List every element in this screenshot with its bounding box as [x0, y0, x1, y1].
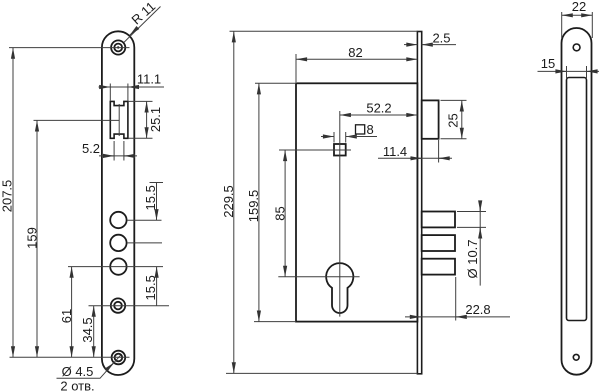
svg-text:11.4: 11.4 [383, 144, 407, 159]
dimension 159 [36, 120, 38, 357]
svg-text:15.5: 15.5 [143, 185, 158, 210]
leader hole diameter [57, 355, 121, 378]
square hole centerline [279, 149, 351, 151]
label diameter 4.5 [62, 364, 94, 379]
svg-text:Ø 4.5: Ø 4.5 [62, 364, 94, 379]
round hole 1 [110, 212, 126, 228]
dimension 229.5 [233, 31, 235, 373]
deadbolt 1 [422, 212, 455, 228]
svg-text:2 отв.: 2 отв. [60, 379, 94, 392]
top screw hole [111, 40, 125, 54]
vertical centerline [339, 111, 341, 317]
svg-text:8: 8 [367, 122, 374, 137]
extension line bottom screw hole [10, 356, 130, 358]
strike plate bottom hole [573, 354, 579, 360]
dimension 82 [296, 54, 417, 82]
svg-text:61: 61 [59, 309, 74, 323]
round hole 2 [110, 235, 126, 251]
dimension 11.1 [99, 84, 165, 101]
label square 8 [356, 122, 374, 137]
extension line body top [255, 82, 296, 84]
extension line hole3 [68, 266, 163, 268]
label 5.2 [82, 141, 100, 156]
extension line backplate bottom [226, 372, 417, 374]
svg-text:159: 159 [25, 227, 40, 249]
dimension 61 [71, 267, 73, 358]
label 85 [273, 206, 288, 220]
label 25 [446, 113, 461, 127]
label 11.4 [383, 144, 407, 159]
label R11 [128, 0, 158, 28]
svg-text:2.5: 2.5 [432, 30, 450, 45]
faceplate outline [102, 31, 134, 375]
label 11.1 [137, 72, 161, 87]
extension line hole1 [127, 219, 162, 221]
dimension diameter 10.7 [457, 201, 486, 286]
strike plate slot [567, 78, 587, 321]
svg-text:15: 15 [541, 56, 555, 71]
extension line cutout center [34, 119, 120, 121]
svg-text:159.5: 159.5 [246, 190, 261, 223]
leader R11 [124, 7, 161, 43]
label 34.5 [80, 317, 95, 342]
dimension 159.5 [258, 83, 260, 321]
label 15.5 bottom [143, 275, 158, 300]
cylinder hole [326, 263, 353, 313]
dimension 22 [562, 12, 593, 38]
label 82 [348, 45, 362, 60]
dimension 85 [284, 150, 286, 277]
svg-text:15.5: 15.5 [143, 275, 158, 300]
label 15 [541, 56, 555, 71]
extension line backplate top [230, 30, 418, 32]
latch bolt [422, 100, 439, 138]
latch cutout [110, 101, 128, 138]
svg-text:85: 85 [273, 206, 288, 220]
svg-text:22.8: 22.8 [465, 302, 490, 317]
strike plate top hole [573, 44, 580, 51]
svg-text:22: 22 [572, 0, 586, 14]
svg-text:82: 82 [348, 45, 362, 60]
deadbolt 2 [422, 235, 455, 251]
dimension 11.4 [378, 140, 452, 163]
svg-text:34.5: 34.5 [80, 317, 95, 342]
dimension 15.5 bottom [156, 267, 158, 306]
label 159 [25, 227, 40, 249]
latch cutout centerline [118, 104, 120, 136]
svg-text:207.5: 207.5 [0, 180, 15, 213]
bottom screw hole [112, 351, 126, 365]
svg-text:5.2: 5.2 [82, 141, 100, 156]
label 159.5 [246, 190, 261, 223]
dimension 25 [441, 100, 467, 138]
svg-text:52.2: 52.2 [366, 101, 391, 116]
svg-text:11.1: 11.1 [137, 72, 161, 87]
label 2 holes [60, 379, 94, 392]
extension line hole2 [127, 242, 162, 244]
svg-text:25.1: 25.1 [148, 107, 163, 132]
svg-text:Ø 10.7: Ø 10.7 [465, 239, 480, 278]
middle screw hole [111, 298, 125, 312]
deadbolt 3 [422, 259, 455, 275]
dimension 52.2 [340, 114, 418, 116]
dimension 15 [538, 66, 600, 79]
svg-text:229.5: 229.5 [221, 185, 236, 218]
round hole 3 [110, 258, 126, 274]
dimension 25.1 [128, 101, 153, 138]
dimension 34.5 [93, 306, 95, 358]
cylinder centerline [278, 276, 359, 278]
dimension 22.8 [405, 277, 510, 321]
label 207.5 [0, 180, 15, 213]
dimension 2.5 [404, 44, 456, 46]
dimension 207.5 [12, 48, 14, 358]
backplate [417, 32, 421, 374]
label 61 [59, 309, 74, 323]
label diameter 10.7 [465, 239, 480, 278]
label 25.1 [148, 107, 163, 132]
square spindle hole [334, 144, 346, 156]
dimension 5.2 [99, 141, 137, 161]
extension line middle screw hole [89, 305, 170, 307]
label 15.5 top [143, 185, 158, 210]
label 22.8 [465, 302, 490, 317]
label 229.5 [221, 185, 236, 218]
extension line top hole [9, 47, 130, 49]
label 22 [572, 0, 586, 14]
svg-text:25: 25 [446, 113, 461, 127]
lock body [296, 83, 417, 321]
label 2.5 [432, 30, 450, 45]
extension line body bottom [254, 321, 296, 323]
dimension square 8 [321, 132, 377, 143]
label 52.2 [366, 101, 391, 116]
dimension 15.5 top [150, 183, 164, 221]
strike plate outline [562, 28, 592, 375]
